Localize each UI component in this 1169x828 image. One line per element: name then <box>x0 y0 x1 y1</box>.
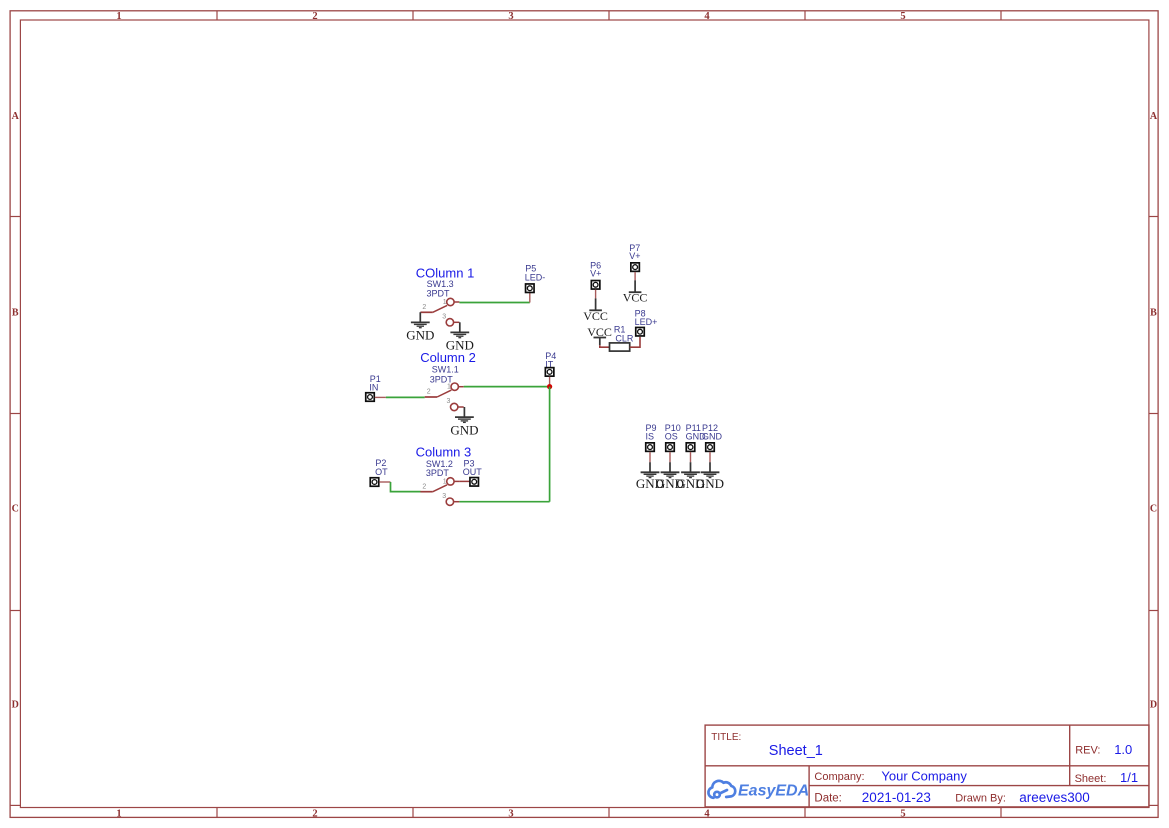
svg-text:OS: OS <box>665 431 678 441</box>
svg-text:1: 1 <box>447 384 451 391</box>
svg-text:2: 2 <box>312 808 317 819</box>
connector P2 <box>370 478 379 487</box>
power VCC at P7 <box>623 280 648 304</box>
wire P4 stub <box>549 377 551 387</box>
svg-text:LED-: LED- <box>525 273 546 283</box>
wire P2 to SW1.2 pin2 (green) <box>391 482 421 492</box>
wire P11 stub <box>690 452 692 462</box>
svg-text:VCC: VCC <box>583 309 608 323</box>
svg-text:A: A <box>1150 111 1158 122</box>
svg-text:2: 2 <box>422 483 426 490</box>
svg-text:1: 1 <box>443 299 447 306</box>
svg-text:Column 2: Column 2 <box>420 350 476 365</box>
svg-text:B: B <box>12 307 19 318</box>
wire P9 stub <box>649 452 651 462</box>
wire P12 stub <box>709 452 711 462</box>
wire SW1.3 pin2 to ground stem <box>419 311 421 313</box>
svg-text:1.0: 1.0 <box>1114 742 1132 757</box>
connector P6 <box>591 281 600 290</box>
connector P8 <box>636 327 645 336</box>
svg-text:4: 4 <box>704 808 710 819</box>
svg-text:SW1.1: SW1.1 <box>432 365 459 375</box>
svg-text:5: 5 <box>900 11 905 22</box>
svg-text:Sheet:: Sheet: <box>1075 773 1107 785</box>
svg-text:Company:: Company: <box>814 771 864 783</box>
svg-text:OUT: OUT <box>463 467 483 477</box>
svg-text:Your Company: Your Company <box>881 769 967 784</box>
connector P11 <box>686 443 695 452</box>
svg-text:D: D <box>1150 700 1157 711</box>
wire P5 stub <box>529 293 531 303</box>
svg-text:Date:: Date: <box>814 792 842 804</box>
svg-text:3PDT: 3PDT <box>427 288 451 298</box>
svg-text:3: 3 <box>446 398 450 405</box>
node junction at P4/SW1.1 <box>547 384 552 389</box>
svg-text:V+: V+ <box>590 269 601 279</box>
connector P4 <box>545 368 554 377</box>
svg-text:REV:: REV: <box>1075 745 1100 757</box>
wire P10 stub <box>669 452 671 462</box>
svg-text:2021-01-23: 2021-01-23 <box>862 790 931 805</box>
svg-text:A: A <box>12 111 20 122</box>
connector P3 <box>470 478 479 487</box>
svg-text:1/1: 1/1 <box>1120 770 1138 785</box>
svg-text:IN: IN <box>369 383 378 393</box>
wire SW1.2 pin3 to junction column (green) <box>459 501 549 503</box>
connector P10 <box>666 443 675 452</box>
svg-text:4: 4 <box>704 11 710 22</box>
wire P2 stub <box>379 481 390 483</box>
wire R1 to P8 (red) <box>630 337 640 347</box>
svg-text:GND: GND <box>696 476 724 491</box>
svg-text:EasyEDA: EasyEDA <box>738 783 809 800</box>
wire SW1.2 pin1 to P3 (red) <box>459 480 469 482</box>
wire vertical junction down (green) <box>549 387 551 502</box>
ground GND at SW1.3 pin3 <box>446 322 474 352</box>
connector P1 <box>366 393 375 402</box>
svg-text:GND: GND <box>702 431 723 441</box>
switch SW1.1 (pins 1,2,3) <box>425 383 464 411</box>
svg-text:3: 3 <box>442 493 446 500</box>
svg-text:VCC: VCC <box>623 291 648 305</box>
wire VCC to R1 (red) <box>600 345 610 347</box>
wire P7 stub <box>634 272 636 280</box>
svg-text:3PDT: 3PDT <box>426 468 450 478</box>
svg-text:3: 3 <box>442 314 446 321</box>
ground GND at P10 <box>656 462 684 491</box>
resistor R1 body <box>610 343 630 351</box>
switch SW1.2 (pins 1,2,3) <box>420 478 459 506</box>
connector P7 <box>631 263 640 272</box>
ground GND at SW1.3 pin2 <box>406 312 434 342</box>
switch SW1.3 (pins 1,2,3) <box>420 298 459 326</box>
svg-text:2: 2 <box>427 389 431 396</box>
svg-text:GND: GND <box>450 422 478 437</box>
wire P1 to SW1.1 pin2 (green) <box>386 396 425 398</box>
svg-text:Sheet_1: Sheet_1 <box>769 743 823 759</box>
svg-text:Drawn By:: Drawn By: <box>955 792 1006 804</box>
wire P1 stub <box>375 396 386 398</box>
ground GND at P12 <box>696 462 724 491</box>
svg-text:C: C <box>1150 504 1157 515</box>
svg-text:3: 3 <box>508 808 513 819</box>
svg-text:2: 2 <box>422 304 426 311</box>
svg-text:OT: OT <box>375 467 388 477</box>
svg-text:1: 1 <box>116 808 121 819</box>
svg-text:D: D <box>12 700 19 711</box>
connector P9 <box>646 443 655 452</box>
connector P12 <box>706 443 715 452</box>
svg-text:5: 5 <box>900 808 905 819</box>
svg-text:IS: IS <box>646 431 655 441</box>
wire SW1.1 pin1 to junction (green) <box>464 386 550 388</box>
svg-text:3: 3 <box>508 11 513 22</box>
svg-text:TITLE:: TITLE: <box>711 732 741 743</box>
svg-text:1: 1 <box>116 11 121 22</box>
svg-text:V+: V+ <box>629 251 640 261</box>
connector P5 <box>526 284 535 293</box>
ground GND at P11 <box>676 462 704 491</box>
wire P6 stub <box>595 290 597 299</box>
svg-text:Column 3: Column 3 <box>416 444 472 459</box>
svg-text:B: B <box>1150 307 1157 318</box>
svg-text:C: C <box>12 504 19 515</box>
svg-text:1: 1 <box>443 478 447 485</box>
power VCC at R1 <box>587 325 612 345</box>
power VCC at P6 <box>583 298 608 322</box>
svg-text:LED+: LED+ <box>635 317 658 327</box>
svg-text:areeves300: areeves300 <box>1019 790 1090 805</box>
wire SW1.3 pin1 to P5 (green) <box>459 302 529 304</box>
svg-text:CLR: CLR <box>615 333 634 343</box>
ground GND at SW1.1 pin3 <box>450 407 478 437</box>
ground GND at P9 <box>636 462 664 491</box>
svg-text:2: 2 <box>312 11 317 22</box>
svg-text:GND: GND <box>406 328 434 343</box>
